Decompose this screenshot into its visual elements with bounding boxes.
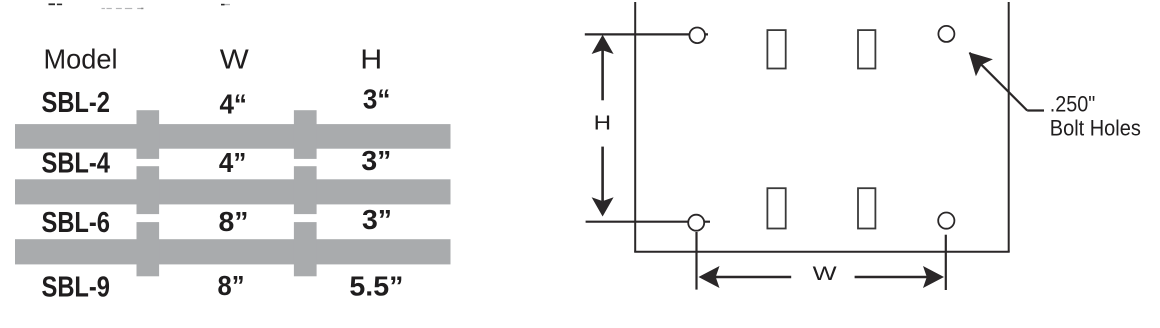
svg-text:4“: 4“ — [219, 89, 247, 120]
svg-text:5.5”: 5.5” — [349, 271, 403, 302]
H dimension shaft lower — [601, 147, 604, 201]
svg-text:H: H — [594, 112, 612, 135]
svg-text:W: W — [220, 44, 249, 75]
slot bottom-left — [767, 188, 785, 228]
svg-text:3”: 3” — [362, 204, 392, 235]
svg-text:Bolt Holes: Bolt Holes — [1050, 115, 1141, 140]
svg-text:SBL-6: SBL-6 — [42, 207, 111, 239]
fence post 1 piece B — [137, 166, 160, 214]
slot bottom-right — [858, 188, 875, 228]
H dimension shaft upper — [601, 50, 604, 100]
slot top-left — [767, 30, 785, 68]
W extension line left — [695, 232, 697, 290]
svg-text:SBL-2: SBL-2 — [42, 87, 111, 119]
fence post 1 piece C — [137, 222, 160, 276]
bracket right edge line — [1008, 2, 1010, 252]
svg-text:.250": .250" — [1050, 92, 1096, 117]
fence rail 1 — [15, 124, 451, 149]
cropped text remnant dashes top-left — [49, 3, 225, 5]
bolt hole top-right — [938, 26, 954, 42]
svg-text:Model: Model — [44, 44, 118, 75]
bracket left edge line — [634, 2, 636, 252]
svg-text:W: W — [813, 264, 837, 285]
W dimension arrowhead left — [699, 266, 720, 288]
W dimension arrowhead right — [923, 266, 944, 288]
svg-text:SBL-4: SBL-4 — [42, 148, 111, 180]
svg-text:SBL-9: SBL-9 — [42, 271, 111, 303]
bolt hole top-left — [689, 28, 705, 44]
fence post 2 piece C — [294, 222, 317, 276]
svg-text:8”: 8” — [219, 206, 249, 237]
bracket bottom edge line — [634, 251, 1010, 253]
bolt hole bottom-right — [938, 213, 954, 229]
fence rail 3 — [15, 239, 451, 264]
cropped text remnant faint dashes — [102, 4, 231, 9]
H dimension arrowhead up — [592, 35, 614, 54]
svg-text:4”: 4” — [219, 147, 246, 178]
svg-text:3”: 3” — [361, 145, 391, 176]
W dimension shaft right — [855, 276, 928, 279]
W extension line right — [945, 235, 947, 290]
slot top-right — [858, 30, 875, 68]
fence post 2 piece B — [294, 166, 317, 214]
H extension line bottom — [586, 221, 710, 223]
svg-text:3“: 3“ — [363, 83, 391, 114]
H extension line top — [585, 33, 708, 35]
bolt hole bottom-left — [688, 215, 704, 231]
W dimension shaft left — [715, 276, 791, 279]
leader line horizontal elbow — [1027, 109, 1044, 111]
fence post 1 piece A — [137, 110, 160, 159]
fence rail 2 — [15, 179, 451, 204]
svg-text:H: H — [360, 44, 382, 75]
leader line diagonal to bolt hole — [970, 53, 1028, 111]
leader arrowhead — [969, 52, 993, 76]
svg-text:8”: 8” — [218, 270, 245, 301]
fence post 2 piece A — [294, 110, 317, 159]
H dimension arrowhead down — [592, 197, 614, 216]
